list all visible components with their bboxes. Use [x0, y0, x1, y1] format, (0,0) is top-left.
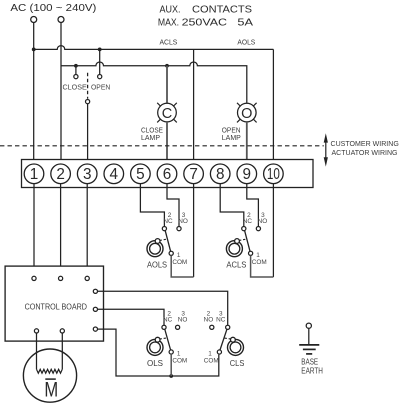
junction OLS COM on run [169, 374, 173, 378]
motor M label with bar [44, 379, 58, 402]
wire terminal 6 to AOLS NO [167, 183, 179, 226]
wire terminal 10 riser to ACLS COM run [272, 183, 274, 277]
ground symbol [299, 345, 319, 354]
svg-text:CONTACTS: CONTACTS [192, 5, 252, 16]
terminal 4 [104, 164, 124, 184]
terminal 9 [237, 164, 257, 184]
wire close-lamp riser lower to terminal 6 [166, 122, 168, 164]
switch AOLS plunger button [147, 239, 163, 257]
svg-text:M: M [44, 379, 58, 402]
wire ACLS COM to terminal 10 [251, 255, 274, 277]
control board node T2 [59, 276, 63, 280]
switch OLS NC contact [162, 325, 166, 329]
switch CLS mechanical link (dashed) [223, 338, 231, 339]
wire terminal-7 riser up to bus L [193, 49, 195, 164]
svg-text:ACLS: ACLS [160, 38, 178, 47]
switch AOLS NO contact [177, 227, 181, 231]
control board node M1 [34, 329, 38, 333]
switch ACLS NC contact [242, 227, 246, 231]
svg-text:4: 4 [110, 166, 119, 183]
switch ACLS mechanical link (dashed) [239, 239, 247, 240]
base earth wire [308, 328, 310, 344]
svg-text:COM: COM [172, 259, 187, 266]
contact OPEN of selector switch [98, 75, 102, 79]
wire terminal 1 to control board [33, 183, 35, 276]
svg-text:NC: NC [163, 317, 173, 324]
junction at AC-L / bus L [32, 48, 36, 52]
wire selector pole to terminal 3 [87, 104, 89, 165]
wire terminal-10 riser up to bus L [272, 49, 274, 164]
switch ACLS COM contact [249, 251, 253, 255]
svg-text:OPEN: OPEN [91, 83, 110, 92]
control board node T3 [85, 276, 89, 280]
switch ACLS lever [245, 231, 250, 252]
contact CLOSE of selector switch [74, 75, 78, 79]
wire OPEN contact drop from bus L [99, 49, 101, 74]
terminal 10 [264, 164, 284, 184]
wire board M1 to motor winding [36, 333, 38, 369]
AC terminal N [58, 17, 64, 23]
svg-text:NO: NO [178, 317, 188, 324]
lamp OPEN (O) [237, 103, 257, 123]
wire AC-L vertical to terminal 1 [33, 23, 35, 165]
svg-text:8: 8 [216, 166, 225, 183]
svg-text:AOLS: AOLS [147, 260, 167, 270]
wire open-lamp riser lower to terminal 9 [246, 122, 248, 164]
control board node R1 [93, 289, 97, 293]
svg-text:AUX.: AUX. [160, 5, 181, 16]
svg-text:CLS: CLS [230, 358, 245, 368]
terminal strip body [22, 160, 314, 188]
svg-text:1: 1 [30, 166, 39, 183]
svg-text:NO: NO [178, 218, 188, 225]
svg-text:C: C [162, 106, 172, 122]
control board node R2 [93, 307, 97, 311]
terminal 1 [24, 164, 44, 184]
svg-text:NO: NO [258, 218, 268, 225]
boundary double arrow [324, 133, 328, 166]
terminal 6 [157, 164, 177, 184]
svg-text:CONTROL BOARD: CONTROL BOARD [25, 301, 87, 311]
switch CLS NO contact [210, 325, 214, 329]
switch ACLS plunger button [226, 239, 242, 257]
svg-text:5: 5 [136, 166, 145, 183]
svg-text:LAMP: LAMP [141, 133, 160, 142]
svg-text:NC: NC [243, 218, 253, 225]
svg-text:6: 6 [163, 166, 172, 183]
svg-text:COM: COM [204, 358, 219, 365]
svg-text:CLOSE: CLOSE [63, 83, 87, 92]
switch AOLS COM contact [169, 251, 173, 255]
switch OLS lever [165, 329, 171, 350]
junction bus N / CLOSE contact branch [74, 64, 78, 68]
wire CLOSE contact drop from bus N [75, 66, 77, 75]
lamp CLOSE (C) [157, 103, 177, 123]
wire terminal 8 to ACLS NC [220, 183, 244, 226]
svg-text:OLS: OLS [147, 358, 163, 368]
svg-text:10: 10 [267, 166, 280, 183]
terminal 7 [184, 164, 204, 184]
junction bus N / close-lamp riser [165, 64, 169, 68]
switch OLS mechanical link (dashed) [160, 338, 168, 339]
svg-text:3: 3 [83, 166, 92, 183]
wire OLS COM to run [170, 354, 172, 376]
switch ACLS NO contact [256, 227, 260, 231]
svg-text:BASE: BASE [301, 358, 318, 367]
wire terminal 2 to control board [60, 183, 62, 276]
svg-text:2: 2 [56, 166, 65, 183]
wire AOLS COM to terminal 7 [171, 255, 193, 277]
wire bus N (y=65.8) from AC-N to open-lamp riser, hops over x=99.7 and x=193.6 [61, 62, 243, 66]
terminal 8 [210, 164, 230, 184]
switch CLS plunger button [228, 337, 244, 355]
svg-text:COM: COM [252, 259, 267, 266]
selector mechanical link (dashed) [87, 73, 89, 99]
switch OLS NO contact [176, 325, 180, 329]
wire terminal 9 to ACLS NO [247, 183, 259, 226]
wire AC-N vertical to terminal 2 [60, 23, 62, 165]
svg-text:AC (100 ~ 240V): AC (100 ~ 240V) [10, 2, 96, 14]
wire board R1 to CLS NC [98, 291, 228, 325]
svg-text:ACLS: ACLS [226, 260, 246, 270]
boundary dashed line customer/actuator [0, 145, 324, 147]
svg-text:EARTH: EARTH [301, 367, 323, 376]
junction bus L / OPEN contact branch [98, 48, 102, 52]
wire terminal 5 to AOLS NC [140, 183, 164, 226]
switch AOLS mechanical link (dashed) [160, 239, 168, 240]
selector pole contact [86, 100, 90, 104]
terminal 2 [51, 164, 71, 184]
svg-text:250VAC: 250VAC [182, 18, 228, 29]
control board node T1 [32, 276, 36, 280]
svg-text:5A: 5A [237, 18, 253, 29]
svg-text:9: 9 [243, 166, 252, 183]
wire close-lamp riser upper [166, 66, 168, 104]
svg-text:7: 7 [189, 166, 198, 183]
wire terminal 3 to control board [86, 183, 88, 276]
wire bus L (y=49.4) from AC-L to terminal-10 riser, hop over AC-N [34, 46, 274, 50]
switch OLS COM contact [169, 350, 173, 354]
switch AOLS lever [165, 231, 170, 252]
svg-text:NO: NO [204, 317, 214, 324]
switch AOLS NC contact [162, 227, 166, 231]
svg-text:NC: NC [163, 218, 173, 225]
AC terminal L [31, 17, 37, 23]
base earth terminal [306, 323, 311, 328]
terminal 3 [77, 164, 97, 184]
switch OLS plunger button [147, 337, 163, 355]
switch CLS COM contact [217, 350, 221, 354]
motor M circle [23, 349, 76, 402]
motor winding zigzag [37, 369, 63, 373]
terminal 5 [131, 164, 151, 184]
svg-text:COM: COM [172, 358, 187, 365]
switch CLS NC contact [226, 325, 230, 329]
svg-text:AOLS: AOLS [237, 38, 255, 47]
control board [5, 266, 103, 341]
svg-text:MAX.: MAX. [158, 18, 179, 29]
svg-text:ACTUATOR WIRING: ACTUATOR WIRING [332, 148, 398, 157]
wire open-lamp riser upper from bus N [243, 66, 247, 104]
switch CLS lever [220, 329, 227, 350]
wire board M2 to motor winding [61, 333, 63, 369]
wire board R2 to OLS NC [98, 309, 165, 325]
control board node M2 [60, 329, 64, 333]
svg-text:LAMP: LAMP [222, 133, 241, 142]
wire terminal 7 riser to AOLS COM run [193, 183, 195, 277]
wire board R3 to OLS/CLS COM run [98, 329, 219, 376]
svg-text:NC: NC [216, 317, 226, 324]
svg-text:O: O [241, 106, 252, 122]
control board node R3 [93, 327, 97, 331]
